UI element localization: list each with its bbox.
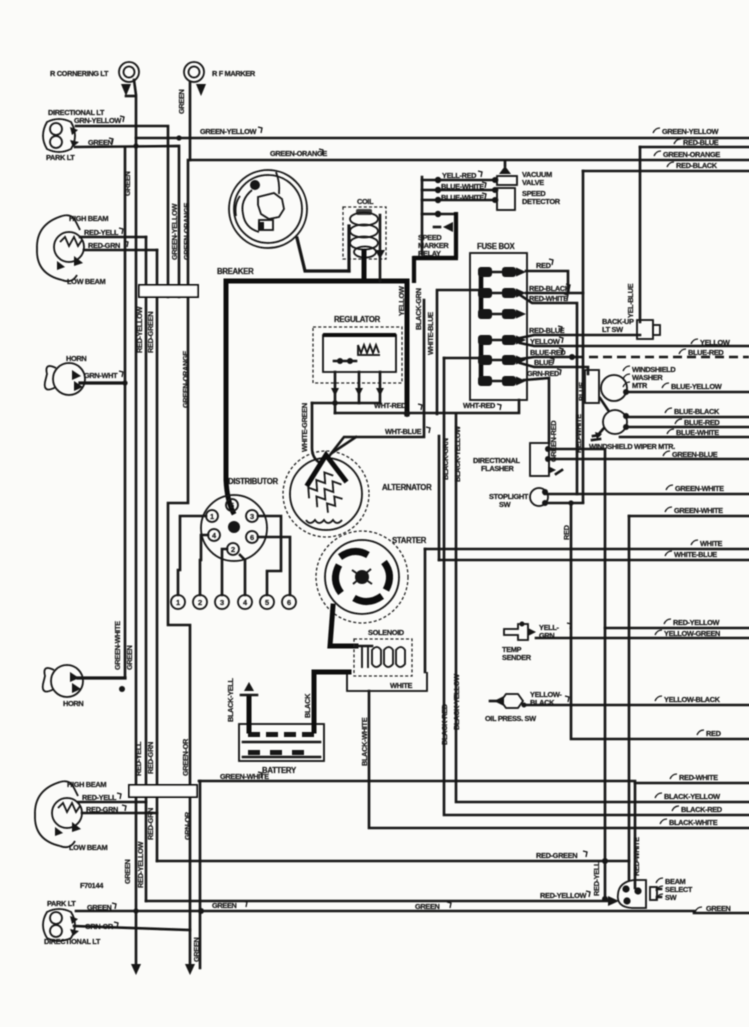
wire RED-BLUE stub — [640, 146, 749, 149]
svg-text:RED-YELLOW: RED-YELLOW — [135, 306, 144, 353]
svg-text:1: 1 — [176, 598, 180, 607]
svg-text:WHITE-BLUE: WHITE-BLUE — [674, 550, 717, 559]
wire fuse RED-WHITE — [520, 295, 577, 494]
svg-text:RELAY: RELAY — [418, 249, 441, 258]
svg-text:BLACK: BLACK — [303, 693, 312, 718]
wire WHT-BLUE to alternator — [330, 300, 424, 455]
wire RED-WHITE stub — [635, 782, 749, 785]
vacuum valve — [497, 161, 517, 185]
lamp R CORNERING LT — [119, 62, 139, 96]
wire red-grn low beam — [84, 249, 157, 252]
svg-text:BLUE: BLUE — [534, 358, 553, 367]
stoplight sw — [530, 488, 548, 506]
svg-text:R F MARKER: R F MARKER — [212, 69, 256, 78]
svg-text:GREEN: GREEN — [123, 859, 132, 884]
svg-text:RED-GREEN: RED-GREEN — [146, 312, 155, 353]
directional flasher — [530, 443, 562, 476]
wire pin6 to term6 — [258, 537, 290, 595]
svg-text:REGULATOR: REGULATOR — [334, 315, 381, 324]
wire GREEN-WHITE 2 — [629, 515, 749, 518]
label GREEN-BLUE — [663, 451, 670, 456]
label GREEN-WHITE 1 — [666, 485, 673, 490]
label RED-BLACK — [667, 162, 674, 167]
svg-text:YELLOW-GREEN: YELLOW-GREEN — [664, 629, 720, 638]
lamp HIGH/LOW BEAM lower — [35, 781, 82, 847]
wire regulator bus — [312, 402, 380, 405]
label BLUE-BLACK — [665, 408, 672, 413]
label BLACK-RED right — [672, 806, 679, 811]
speed detector — [497, 188, 515, 210]
wire BLUE-BLACK — [626, 416, 749, 419]
svg-text:2: 2 — [231, 545, 235, 554]
fuse box — [470, 242, 527, 400]
svg-text:GREEN-YELLOW: GREEN-YELLOW — [170, 203, 179, 260]
svg-text:GREEN: GREEN — [706, 904, 731, 913]
connector block upper — [139, 285, 198, 297]
wire WHITE vertical to solenoid — [424, 549, 427, 672]
fuse 6 — [478, 376, 526, 386]
svg-text:RED-BLUE: RED-BLUE — [529, 326, 565, 335]
svg-text:GREEN: GREEN — [123, 171, 132, 196]
svg-text:LT SW: LT SW — [602, 325, 623, 334]
svg-text:SENDER: SENDER — [502, 653, 532, 662]
svg-text:GREEN: GREEN — [415, 902, 440, 911]
svg-text:DISTRIBUTOR: DISTRIBUTOR — [228, 477, 279, 486]
svg-text:RED-WHITE: RED-WHITE — [529, 294, 568, 303]
wire WHT-RED horizontal — [335, 400, 519, 413]
svg-text:BLACK-YELLOW: BLACK-YELLOW — [452, 674, 461, 730]
svg-text:YELLOW-BLACK: YELLOW-BLACK — [664, 695, 721, 704]
label GREEN right lower — [695, 907, 702, 912]
battery post right thick to solenoid — [314, 672, 349, 731]
wire trunk green-white x125 horn to horn — [124, 147, 127, 678]
battery post left thick — [247, 697, 252, 731]
alternator — [283, 437, 432, 537]
svg-text:GREEN-ORANGE: GREEN-ORANGE — [663, 150, 720, 159]
label YELLOW right — [691, 339, 698, 344]
svg-text:GREEN-WHITE: GREEN-WHITE — [113, 621, 122, 670]
svg-text:DIRECTIONAL LT: DIRECTIONAL LT — [44, 937, 101, 946]
svg-text:GREEN-BLUE: GREEN-BLUE — [672, 450, 718, 459]
svg-text:WHT-RED: WHT-RED — [374, 401, 407, 410]
wire RED-BLACK vertical down to stoplight — [582, 171, 585, 502]
svg-text:GREEN-ORANGE: GREEN-ORANGE — [182, 203, 191, 260]
label WHITE right — [691, 540, 698, 545]
svg-text:3: 3 — [250, 512, 254, 521]
svg-text:BLACK-RED: BLACK-RED — [440, 703, 449, 745]
wire red-grn lower — [82, 812, 157, 815]
svg-text:DETECTOR: DETECTOR — [522, 197, 561, 206]
svg-text:PARK LT: PARK LT — [47, 899, 76, 908]
wire cap to coil thin — [297, 238, 349, 271]
wire pin3 to term5 — [258, 516, 281, 595]
svg-text:WHITE-GREEN: WHITE-GREEN — [300, 403, 309, 452]
wire green from park lamp — [75, 146, 179, 297]
wire vertical x199 — [199, 781, 202, 968]
wire yell-red to vacuum valve — [422, 179, 497, 182]
wire fuse RED-BLACK — [526, 292, 583, 295]
horn (lower) — [43, 665, 83, 697]
starter — [316, 531, 427, 623]
svg-text:COIL: COIL — [357, 197, 374, 206]
svg-text:BLACK-YELLOW: BLACK-YELLOW — [664, 792, 720, 801]
wire stoplight green-white — [545, 493, 749, 496]
wire cornering lamp down — [134, 80, 136, 966]
label GREEN-ORANGE right — [654, 151, 661, 156]
svg-text:RED-GRN: RED-GRN — [146, 742, 155, 774]
svg-text:GREEN: GREEN — [192, 937, 201, 962]
back-up lt sw — [637, 320, 660, 339]
svg-text:BLACK-RED: BLACK-RED — [681, 805, 723, 814]
svg-text:2: 2 — [198, 598, 202, 607]
svg-text:RED-YELLOW: RED-YELLOW — [540, 891, 587, 900]
svg-text:1: 1 — [210, 512, 214, 521]
label YELLOW-BLACK right — [655, 696, 662, 701]
wire grn-yellow from directional lamp — [76, 126, 168, 297]
wire yellow-green long — [536, 637, 749, 640]
label GREEN-YELLOW right — [653, 128, 660, 133]
wire pin4 to term2 — [200, 535, 208, 595]
svg-text:GREEN-YELLOW: GREEN-YELLOW — [200, 127, 257, 136]
svg-text:GRN-WHT: GRN-WHT — [84, 371, 118, 380]
fuse 2 — [478, 288, 526, 298]
solenoid — [354, 628, 412, 676]
wire trunk x157 red-green — [156, 250, 159, 861]
junction park/cornering — [133, 143, 138, 148]
svg-text:BLUE-RED: BLUE-RED — [688, 348, 724, 357]
svg-text:GREEN-YELLOW: GREEN-YELLOW — [662, 127, 719, 136]
svg-text:GREEN-RED: GREEN-RED — [549, 420, 558, 462]
svg-text:RED-BLUE: RED-BLUE — [683, 138, 719, 147]
wire BLUE-WHITE wiper — [620, 436, 749, 439]
svg-text:HORN: HORN — [63, 699, 83, 708]
svg-text:BLACK-WHITE: BLACK-WHITE — [669, 818, 718, 827]
wire pin1 to term1 — [178, 516, 206, 595]
wire WHITE-BLUE long — [439, 559, 749, 562]
svg-text:RED-GRN: RED-GRN — [88, 241, 120, 250]
svg-text:OIL PRESS. SW: OIL PRESS. SW — [485, 714, 536, 723]
svg-text:PARK LT: PARK LT — [46, 153, 75, 162]
svg-text:GREEN-ORANGE: GREEN-ORANGE — [181, 351, 190, 408]
svg-text:F70144: F70144 — [80, 881, 104, 890]
wire marker lamp down — [189, 82, 192, 160]
wire trunk x135 bottom arrow — [131, 964, 141, 975]
svg-text:HIGH BEAM: HIGH BEAM — [69, 214, 108, 223]
distributor cap (breaker) — [229, 170, 307, 248]
wire blue-white 2 — [422, 199, 497, 202]
svg-text:SW: SW — [665, 893, 677, 902]
svg-text:LOW BEAM: LOW BEAM — [69, 843, 107, 852]
wire flasher to red-yellow stub — [548, 449, 605, 899]
wire fuse BLUE to washer — [520, 363, 588, 374]
label RED-YELLOW right — [664, 619, 671, 624]
svg-text:GREEN-OR: GREEN-OR — [181, 738, 190, 776]
wire green-white vertical to red-green — [628, 516, 631, 880]
wire relay down — [412, 256, 416, 283]
fuse 5 — [478, 355, 526, 365]
wire fuse RED-BLUE to backup sw — [520, 335, 640, 338]
speed marker relay — [413, 177, 458, 258]
label ticks — [109, 116, 590, 928]
label BLUE-RED right — [679, 349, 686, 354]
svg-text:6: 6 — [250, 533, 254, 542]
svg-text:WHITE: WHITE — [700, 539, 722, 548]
lamp HIGH/LOW BEAM upper — [37, 215, 84, 281]
label GREEN-WHITE 2 — [665, 507, 672, 512]
svg-text:RED-YELL: RED-YELL — [82, 793, 117, 802]
wire red-yell vertical to beam select — [602, 858, 608, 864]
wire fuse YELLOW long — [520, 343, 749, 346]
wire GREEN-WHITE battery bottom — [199, 780, 635, 783]
fuse 3 — [478, 309, 526, 319]
svg-text:YELLOW: YELLOW — [700, 338, 730, 347]
svg-text:GREEN-WHITE: GREEN-WHITE — [675, 484, 724, 493]
svg-text:RED: RED — [536, 261, 552, 270]
svg-text:GRN-RED: GRN-RED — [527, 369, 560, 378]
label WHITE-BLUE right — [665, 551, 672, 556]
svg-text:RED-YELLOW: RED-YELLOW — [136, 841, 145, 888]
svg-text:BLUE-WHITE: BLUE-WHITE — [676, 428, 719, 437]
svg-text:RED-GREEN: RED-GREEN — [536, 851, 577, 860]
svg-text:RED-WHITE: RED-WHITE — [679, 773, 718, 782]
svg-text:GRN-YELLOW: GRN-YELLOW — [74, 116, 121, 125]
wire grn-wht horn — [80, 381, 125, 384]
lamp DIRECTIONAL/PARK LT (top left) — [43, 119, 79, 152]
svg-text:GREEN: GREEN — [212, 901, 237, 910]
svg-text:RED: RED — [706, 729, 722, 738]
wire trunk black-red x444 — [444, 358, 749, 815]
label BEAM SELECT SW — [656, 878, 663, 883]
svg-text:YELLOW: YELLOW — [397, 286, 406, 316]
label BLUE-WHITE — [667, 429, 674, 434]
lamp PARK/DIRECTIONAL lower — [43, 909, 79, 941]
svg-text:6: 6 — [287, 598, 291, 607]
svg-text:R CORNERING LT: R CORNERING LT — [50, 69, 109, 78]
svg-text:RED-BLACK: RED-BLACK — [529, 284, 571, 293]
svg-text:STARTER: STARTER — [392, 536, 427, 545]
wire BLUE-YELLOW — [626, 391, 749, 394]
oil press sw — [490, 694, 527, 708]
svg-text:LOW BEAM: LOW BEAM — [67, 277, 105, 286]
svg-text:BLUE-BLACK: BLUE-BLACK — [674, 407, 720, 416]
svg-text:FLASHER: FLASHER — [481, 464, 514, 473]
wire pin2 to term3 — [222, 549, 227, 595]
beam select sw — [608, 880, 661, 908]
svg-text:GREEN-ORANGE: GREEN-ORANGE — [270, 149, 327, 158]
distributor terminal row 1-6 — [171, 595, 296, 609]
svg-text:ALTERNATOR: ALTERNATOR — [382, 483, 432, 492]
wire fuse RED — [526, 271, 568, 293]
wire term4 up — [240, 555, 245, 595]
battery — [239, 724, 324, 761]
svg-text:RED: RED — [562, 524, 571, 540]
svg-text:WHITE-BLUE: WHITE-BLUE — [426, 312, 435, 355]
temp sender — [504, 622, 536, 641]
svg-text:RED-BLACK: RED-BLACK — [676, 161, 718, 170]
solenoid outer box — [347, 672, 427, 691]
wire red down from stoplight — [571, 503, 749, 739]
fuse bus bars — [479, 272, 484, 314]
svg-text:YELLOW: YELLOW — [530, 337, 560, 346]
wire yellow-black long — [523, 704, 749, 707]
svg-text:WHT-RED: WHT-RED — [463, 401, 496, 410]
svg-text:FUSE BOX: FUSE BOX — [477, 242, 516, 251]
svg-text:BLUE-WHITE: BLUE-WHITE — [441, 193, 484, 202]
wire starter to solenoid thick — [330, 606, 356, 646]
wire RED-BLACK stub — [583, 170, 749, 173]
label BLUE-RED wiper — [675, 419, 682, 424]
svg-text:BLUE-RED: BLUE-RED — [530, 348, 566, 357]
wire trunk x188 green-orange jog — [168, 160, 190, 966]
wire RED-BLUE vertical — [639, 147, 642, 322]
svg-text:4: 4 — [212, 531, 217, 540]
label BLACK-WHITE right — [660, 819, 667, 824]
connector block lower — [129, 785, 197, 797]
wire thick ignition feed — [226, 281, 407, 512]
wire stoplight lower — [545, 502, 583, 505]
wire fuse GRN-RED to flasher — [524, 378, 549, 443]
svg-text:RED-WHITE: RED-WHITE — [574, 414, 583, 453]
svg-text:RED-YELL: RED-YELL — [134, 741, 143, 776]
label RED right — [697, 730, 704, 735]
label YELLOW-GREEN right — [655, 630, 662, 635]
wire RED-YELLOW long bottom — [146, 900, 614, 903]
label RED-BLUE — [674, 139, 681, 144]
svg-text:SW: SW — [499, 500, 511, 509]
regulator — [313, 315, 402, 413]
wire red-yell lower — [78, 801, 146, 804]
svg-text:BLACK-YELL: BLACK-YELL — [226, 677, 235, 722]
label RED-WHITE right — [670, 774, 677, 779]
svg-text:HIGH BEAM: HIGH BEAM — [67, 780, 106, 789]
wire black-white from solenoid — [369, 691, 749, 828]
wire green park lower long — [76, 911, 749, 913]
svg-text:WHITE: WHITE — [390, 681, 412, 690]
svg-text:4: 4 — [243, 598, 248, 607]
wire red-white vertical to beam select — [634, 783, 637, 888]
label BLACK-YELLOW right — [655, 793, 662, 798]
svg-text:WHT-BLUE: WHT-BLUE — [385, 427, 422, 436]
svg-text:3: 3 — [220, 598, 224, 607]
wire red-yell high beam — [80, 236, 146, 239]
wire GREEN-YELLOW main horizontal — [136, 137, 749, 140]
svg-text:RED-YELL: RED-YELL — [592, 861, 601, 896]
svg-text:SOLENOID: SOLENOID — [368, 628, 405, 637]
wire grn-or lower — [74, 926, 190, 930]
wire fuse feed upper — [437, 290, 479, 414]
svg-text:GRN-OR: GRN-OR — [183, 811, 192, 840]
lamp R F MARKER — [184, 62, 206, 96]
wire fuse BLUE-RED dashed — [520, 357, 575, 359]
svg-text:RED-YELLOW: RED-YELLOW — [673, 618, 720, 627]
wire WHITE long — [425, 548, 749, 551]
distributor — [201, 477, 279, 561]
svg-text:GREEN-WHITE: GREEN-WHITE — [674, 506, 723, 515]
wire GREEN-ORANGE main — [190, 159, 749, 162]
wire blue-white 1 — [422, 189, 497, 192]
svg-text:BLUE: BLUE — [577, 382, 586, 401]
svg-text:BLUE-WHITE: BLUE-WHITE — [441, 182, 484, 191]
fuse 4 — [478, 335, 526, 345]
wire white-blue vertical — [438, 436, 441, 560]
wire horn lower to trunk — [78, 676, 125, 679]
coil — [343, 197, 386, 281]
windshield washer mtr — [585, 370, 629, 403]
svg-text:BREAKER: BREAKER — [217, 267, 254, 276]
label WINDSHIELD WASHER MTR — [623, 366, 630, 371]
wire white-green vertical to alternator — [312, 403, 320, 463]
svg-text:RED-GRN: RED-GRN — [146, 808, 155, 840]
wire RED-GREEN long — [157, 860, 629, 863]
svg-text:MTR: MTR — [632, 381, 648, 390]
label BLUE-YELLOW — [662, 383, 669, 388]
svg-text:5: 5 — [230, 501, 234, 510]
svg-text:YELL-RED: YELL-RED — [442, 171, 477, 180]
svg-text:BLUE-YELLOW: BLUE-YELLOW — [671, 382, 722, 391]
wire BLUE-RED wiper — [626, 426, 749, 429]
svg-text:GREEN: GREEN — [125, 645, 134, 670]
horn (upper) — [45, 363, 85, 395]
wire trunk black-yellow x456 — [456, 414, 749, 802]
svg-text:BLACK-WHITE: BLACK-WHITE — [360, 717, 369, 766]
svg-text:YEL-BLUE: YEL-BLUE — [626, 283, 635, 318]
fuse 1 — [478, 267, 526, 277]
svg-text:GREEN: GREEN — [177, 89, 186, 114]
svg-text:BLACK-GRN: BLACK-GRN — [414, 288, 423, 330]
wire trunk x146 red-yellow — [145, 237, 148, 901]
svg-text:RED-YELL: RED-YELL — [84, 228, 119, 237]
wire flasher GREEN-BLUE — [548, 458, 749, 461]
svg-text:VALVE: VALVE — [522, 178, 544, 187]
svg-text:5: 5 — [265, 598, 269, 607]
svg-text:BLACK-GRN: BLACK-GRN — [441, 438, 450, 480]
svg-text:BLUE-RED: BLUE-RED — [684, 418, 720, 427]
svg-text:RED-WHITE: RED-WHITE — [632, 837, 641, 876]
wire fuse feed lower — [444, 357, 479, 360]
svg-text:HORN: HORN — [66, 354, 86, 363]
windshield wiper mtr — [592, 398, 629, 440]
svg-text:BLACK-YELLOW: BLACK-YELLOW — [453, 426, 462, 482]
